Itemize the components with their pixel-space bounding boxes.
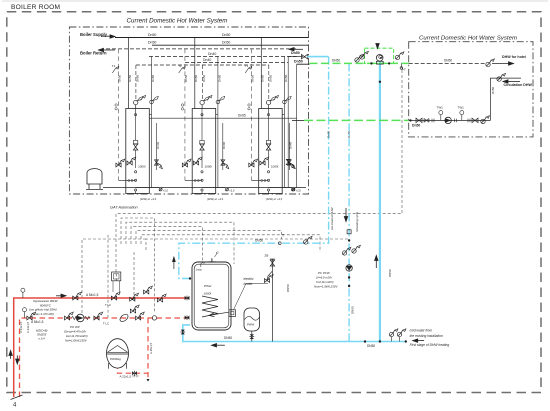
circulation valve bbox=[497, 73, 506, 81]
heating coil bbox=[202, 296, 218, 317]
svg-text:Dn65: Dn65 bbox=[238, 114, 246, 118]
heat exchanger oval bbox=[119, 313, 130, 323]
green reheating return header bbox=[304, 119, 409, 121]
svg-text:Dn50: Dn50 bbox=[148, 40, 156, 44]
svg-text:TW1: TW1 bbox=[437, 106, 444, 110]
P2 P4 valves bbox=[130, 305, 139, 313]
control wire to pump PO WP bbox=[82, 239, 146, 313]
junction dots on green header bbox=[370, 62, 372, 64]
circulation arrow bbox=[503, 80, 520, 83]
svg-text:Current Domestic Hot Water: Current Domestic Hot Water System bbox=[127, 18, 228, 24]
outlet valves bbox=[468, 119, 470, 123]
PC PCW twin valves bbox=[342, 247, 351, 255]
svg-text:A 34x1,5: A 34x1,5 bbox=[19, 321, 23, 333]
header H3 bbox=[149, 56, 297, 58]
svg-text:electric: electric bbox=[244, 277, 255, 281]
vertical arrows on red mains bbox=[9, 351, 12, 359]
control wire L7 bbox=[146, 239, 350, 250]
control wire L3 to tank bbox=[126, 222, 234, 264]
flag valve on cyan header bbox=[304, 236, 313, 244]
expansion vessel PWWeg bbox=[107, 339, 129, 368]
strainer bbox=[424, 119, 429, 123]
svg-text:Dn50: Dn50 bbox=[291, 51, 300, 55]
faint top rule bbox=[2, 0, 548, 2]
cyan dash-dot riser B (PC PCW branch) bbox=[348, 63, 350, 341]
valve on exit riser bbox=[286, 159, 294, 168]
tank entry valves bbox=[185, 296, 190, 301]
svg-text:Dn50: Dn50 bbox=[222, 33, 230, 37]
return header H2 bbox=[152, 44, 309, 46]
PC PCW motor valve box bbox=[347, 230, 351, 234]
svg-text:A 28x1,5: A 28x1,5 bbox=[149, 342, 153, 354]
green DHW supply header bbox=[310, 62, 409, 64]
svg-text:Dn50: Dn50 bbox=[222, 40, 230, 44]
valve on expansion line bbox=[132, 371, 137, 376]
circulation pump 2 bbox=[445, 117, 451, 123]
cyan pipe from left box bbox=[307, 56, 329, 58]
svg-text:(1kW) el. +2,0: (1kW) el. +2,0 bbox=[140, 197, 157, 201]
svg-text:Dn50: Dn50 bbox=[294, 60, 303, 64]
svg-text:DN50: DN50 bbox=[388, 269, 392, 277]
svg-text:PWWeg: PWWeg bbox=[110, 357, 121, 361]
pump PO WP bbox=[76, 314, 84, 322]
svg-text:T LC: T LC bbox=[103, 322, 109, 326]
junction dot at tank inlet bbox=[189, 277, 191, 279]
header H4 bbox=[185, 62, 288, 64]
boiler unit 2 bbox=[178, 38, 235, 194]
svg-text:1max: 1max bbox=[196, 268, 203, 272]
flex connectors at pump bbox=[72, 316, 91, 319]
svg-text:DN50: DN50 bbox=[367, 344, 375, 348]
control wire L6 bbox=[141, 235, 320, 252]
boiler unit 3 bbox=[245, 38, 302, 194]
flange ticks bbox=[432, 119, 434, 123]
svg-text:DHW for hotel: DHW for hotel bbox=[502, 55, 526, 59]
P3 valve bbox=[94, 312, 103, 320]
svg-text:T LC: T LC bbox=[105, 303, 111, 307]
heater thermostat sensor bbox=[267, 271, 273, 280]
bottom collector pipe bbox=[103, 187, 306, 189]
control wire T LC bbox=[107, 235, 109, 318]
sensor on return start bbox=[23, 308, 27, 312]
cyan bottom return main bbox=[183, 325, 406, 342]
svg-text:(V=6,0 m3/h: (V=6,0 m3/h bbox=[316, 276, 332, 280]
cyan main riser (thick) bbox=[379, 62, 381, 342]
tank top vent bbox=[211, 258, 213, 262]
electric heater box bbox=[229, 310, 236, 317]
svg-text:Dn50: Dn50 bbox=[327, 130, 331, 138]
bypass valve bbox=[130, 293, 139, 301]
red heating supply main bbox=[14, 298, 190, 397]
supply header H1 bbox=[115, 37, 309, 39]
pump isolation valves bbox=[355, 54, 364, 62]
svg-text:(1kW) el. +2,0: (1kW) el. +2,0 bbox=[207, 197, 224, 201]
boiler return arrow bbox=[99, 48, 116, 51]
svg-text:1000l: 1000l bbox=[204, 292, 212, 296]
cyan dash-dot riser A down bbox=[179, 57, 329, 279]
boiler unit 1 bbox=[112, 38, 169, 194]
hotel outlet valve bbox=[486, 59, 495, 67]
svg-text:A 54x1,5: A 54x1,5 bbox=[31, 320, 44, 324]
arrow down on riser B bbox=[344, 208, 347, 222]
svg-text:DN50: DN50 bbox=[332, 59, 340, 63]
svg-text:PWW: PWW bbox=[247, 323, 255, 327]
svg-text:First stage of DHW heating: First stage of DHW heating bbox=[410, 343, 450, 347]
svg-text:(5max=4,47m3/h: (5max=4,47m3/h bbox=[64, 329, 86, 333]
right box bottom pipe bbox=[409, 119, 491, 121]
svg-text:(1kW) el. +2,0: (1kW) el. +2,0 bbox=[266, 197, 283, 201]
circulation return pipe bbox=[490, 78, 521, 120]
black stub left of green return bbox=[292, 119, 304, 121]
valve at return start bbox=[27, 312, 36, 320]
DHW hotel dashed pipe bbox=[409, 63, 485, 65]
svg-text:(max 4,47m3/h): (max 4,47m3/h) bbox=[33, 312, 54, 316]
supply arrow bbox=[56, 294, 66, 297]
svg-text:BOILER ROOM: BOILER ROOM bbox=[11, 4, 60, 11]
svg-text:Dn50: Dn50 bbox=[412, 124, 420, 128]
arrow into pump box bbox=[376, 44, 379, 49]
expansion line down bbox=[118, 318, 149, 373]
T sensor on cyan header bbox=[278, 242, 281, 245]
svg-text:cold water from: cold water from bbox=[410, 329, 433, 333]
valve on supply bbox=[73, 292, 82, 300]
control wire L2 bbox=[121, 218, 155, 313]
svg-text:h=2,0m H2O): h=2,0m H2O) bbox=[316, 280, 333, 284]
svg-text:Dn50: Dn50 bbox=[491, 86, 495, 94]
cold water inlet valves bbox=[389, 329, 398, 337]
gauge ring on return bbox=[152, 316, 156, 320]
buffer tank PWw 1000l bbox=[192, 262, 231, 330]
svg-text:DN50: DN50 bbox=[286, 284, 290, 292]
black stub to green header bbox=[297, 63, 310, 65]
svg-text:Dn40: Dn40 bbox=[208, 52, 216, 56]
control wire P valve bbox=[133, 252, 135, 300]
TW1 sensor 1 bbox=[440, 115, 442, 121]
svg-text:A 34x1,5: A 34x1,5 bbox=[26, 321, 30, 333]
return exit arrow bbox=[289, 48, 303, 51]
svg-text:kw=11,70mH2O): kw=11,70mH2O) bbox=[66, 334, 88, 338]
LC controller box bbox=[112, 272, 121, 281]
cyan pipe: left box outlet valve bbox=[302, 54, 308, 58]
valve on tank bottom drop bbox=[180, 330, 185, 335]
ZB safety line bbox=[271, 259, 273, 342]
svg-text:Current Domestic Hot Water: Current Domestic Hot Water System bbox=[419, 36, 517, 42]
gauge on supply corner bbox=[21, 288, 25, 292]
right side risers to exits bbox=[287, 57, 289, 188]
control wire L4 to tank bbox=[131, 226, 202, 264]
svg-text:reheating cycle: reheating cycle bbox=[355, 211, 359, 232]
svg-text:Dn40: Dn40 bbox=[203, 58, 211, 62]
svg-text:Nel=1,0kW,230V: Nel=1,0kW,230V bbox=[65, 338, 88, 342]
arrow up on main riser bbox=[375, 256, 378, 269]
svg-text:Dn50: Dn50 bbox=[148, 33, 156, 37]
svg-text:the existing installation: the existing installation bbox=[410, 334, 443, 338]
svg-text:Circulation DHW: Circulation DHW bbox=[504, 83, 533, 87]
P1 valve bbox=[65, 312, 74, 320]
boiler supply arrow bbox=[101, 35, 115, 38]
safety group above supply bbox=[115, 272, 117, 281]
small vessel in left box bbox=[86, 169, 103, 190]
svg-text:A 22x1,5 ????: A 22x1,5 ???? bbox=[120, 375, 140, 379]
svg-text:n,5,4: n,5,4 bbox=[39, 337, 46, 341]
P valve above supply bbox=[144, 286, 153, 294]
svg-text:TW1: TW1 bbox=[458, 106, 465, 110]
svg-text:ZB: ZB bbox=[265, 254, 269, 258]
TW1 sensor 2 bbox=[461, 115, 463, 121]
T sensor after pump box bbox=[401, 63, 403, 70]
svg-text:PO WP: PO WP bbox=[70, 325, 80, 329]
svg-text:DN50: DN50 bbox=[351, 306, 355, 314]
control wire L5 bbox=[136, 231, 282, 244]
control wire L1 to T sensor bbox=[116, 68, 402, 272]
first stage arrow bbox=[413, 339, 424, 342]
svg-text:T: T bbox=[282, 234, 284, 238]
circulation pump bbox=[376, 55, 383, 62]
svg-text:T: T bbox=[404, 68, 406, 72]
Dn65 mid header bbox=[149, 117, 296, 119]
P valve right bbox=[157, 294, 166, 302]
svg-text:DN50: DN50 bbox=[444, 59, 452, 63]
TLC valve on supply bbox=[111, 292, 120, 300]
svg-text:GAT Automation: GAT Automation bbox=[110, 206, 138, 210]
boiler units go here bbox=[112, 38, 302, 202]
drain on exit riser bbox=[292, 188, 295, 191]
membrane vessel PWW bbox=[244, 308, 260, 331]
PC PCW pump bbox=[346, 265, 352, 271]
inlet valve bbox=[416, 118, 422, 122]
arrow left under tank bbox=[212, 344, 225, 347]
svg-text:DN50: DN50 bbox=[255, 238, 263, 242]
tank top thermometer bbox=[201, 262, 204, 267]
arrow up at tank inlet bbox=[173, 257, 176, 269]
right DHW system dash-dot border bbox=[409, 42, 533, 137]
hotel outlet arrow bbox=[492, 62, 514, 65]
coil arrow into heater bbox=[209, 312, 229, 317]
flange ticks bbox=[455, 119, 457, 123]
svg-text:PWw: PWw bbox=[204, 284, 212, 288]
junction dots on bottom main bbox=[364, 340, 366, 342]
svg-text:pre-heated DHW: pre-heated DHW bbox=[330, 207, 334, 230]
svg-text:A 54x1,5: A 54x1,5 bbox=[86, 293, 99, 297]
left system dash-dot border bbox=[69, 27, 308, 194]
bottom cut ticks bbox=[11, 395, 23, 400]
svg-text:PC PCW: PC PCW bbox=[318, 271, 330, 275]
red heating return main (dashed) bbox=[20, 318, 190, 397]
svg-text:Nom=1,5kW,230V: Nom=1,5kW,230V bbox=[314, 285, 339, 289]
green pump bypass box bbox=[365, 48, 394, 63]
svg-text:DN50: DN50 bbox=[224, 336, 232, 340]
